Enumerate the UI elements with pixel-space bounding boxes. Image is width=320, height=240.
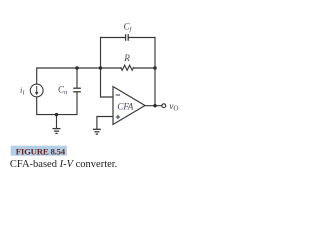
svg-text:R: R	[123, 53, 130, 63]
capacitor Cf plates	[125, 34, 127, 41]
ground (left, signal)	[53, 129, 61, 134]
caption highlight	[11, 146, 67, 156]
wire: current source bottom to bottom rail	[37, 92, 77, 115]
resistor R1 leads	[101, 67, 122, 69]
wire: top wire left of Cf	[101, 37, 126, 39]
resistor R zigzag	[121, 65, 133, 70]
output terminal v_O	[162, 104, 166, 108]
ground (op-amp + input)	[93, 129, 101, 134]
wire: op-amp output	[145, 105, 162, 107]
wire: Cn stem top	[76, 68, 78, 88]
junction node dots	[75, 66, 78, 69]
wire: non-inverting input to ground	[97, 117, 113, 130]
op-amp plus sign	[116, 115, 120, 119]
wire: top wire right of Cf	[129, 37, 156, 39]
wire: ground stem left	[56, 115, 58, 129]
svg-text:vO: vO	[169, 102, 178, 113]
current source i_I	[30, 84, 43, 97]
op-amp minus sign	[116, 94, 120, 96]
svg-text:iI: iI	[20, 85, 25, 97]
svg-text:Cn: Cn	[58, 85, 67, 97]
wire: feedback right vertical	[154, 38, 156, 107]
svg-text:FIGURE 8.54: FIGURE 8.54	[16, 146, 66, 156]
wire: current source top to node	[37, 68, 101, 84]
svg-text:Cf: Cf	[124, 22, 133, 34]
svg-text:CFA-based I-V converter.: CFA-based I-V converter.	[10, 159, 117, 170]
wire: feedback left vertical	[101, 38, 114, 98]
op-amp U1 (CFA) triangle	[113, 87, 145, 125]
svg-text:CFA: CFA	[117, 101, 134, 111]
capacitor Cn plates	[73, 87, 81, 89]
